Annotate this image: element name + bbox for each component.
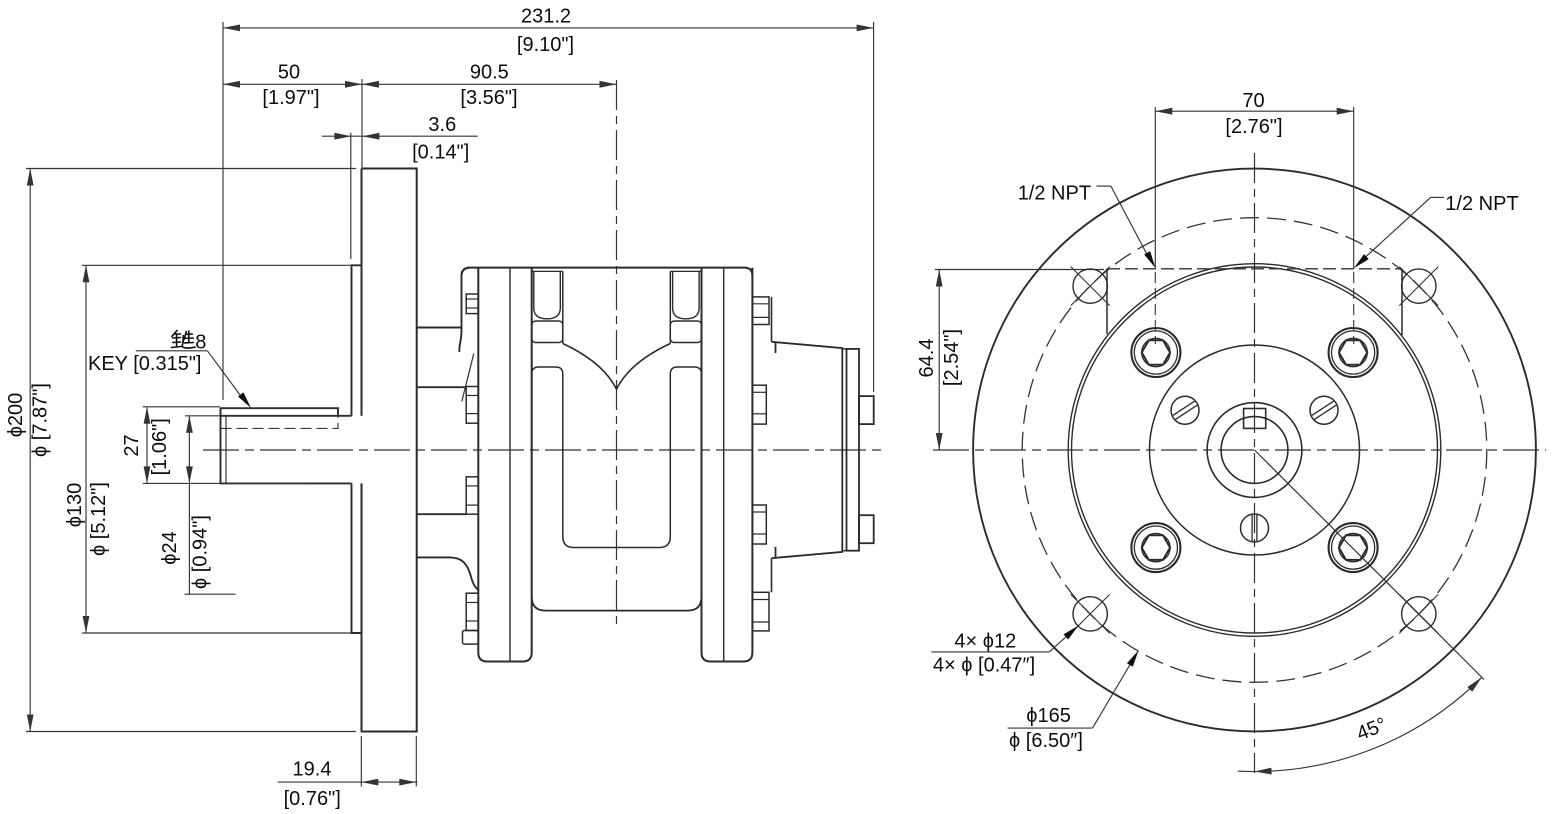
dim 231.2	[223, 27, 874, 29]
slotted screw left	[1171, 396, 1199, 424]
rear disk	[847, 349, 860, 551]
front view horizontal centerline	[933, 449, 1546, 451]
svg-text:ϕ130: ϕ130	[64, 483, 86, 528]
dim 27	[146, 407, 148, 484]
body square corner left	[1106, 269, 1108, 334]
mount hole phi12 bottom-right	[1402, 597, 1436, 631]
45 deg diagonal line	[1255, 450, 1485, 680]
tie-bolt band left	[532, 321, 563, 343]
flange outer circle phi200	[973, 169, 1536, 732]
front plate inner line	[509, 268, 511, 662]
neck upper boss line	[417, 386, 467, 388]
tie-bolt lower band left	[532, 367, 563, 597]
svg-text:3.6: 3.6	[428, 114, 456, 136]
ext lines dim27	[143, 406, 220, 408]
gear chamber bottom	[563, 537, 671, 548]
casting slant line	[462, 354, 474, 402]
keyway square	[1244, 409, 1266, 429]
svg-text:ϕ200: ϕ200	[5, 393, 27, 438]
svg-text:[2.54"]: [2.54"]	[941, 329, 963, 386]
shaft boss circle	[1207, 403, 1302, 498]
body top edge steps	[532, 270, 563, 272]
svg-text:4× ϕ [0.47″]: 4× ϕ [0.47″]	[933, 655, 1035, 677]
rear boss edge	[771, 297, 773, 342]
body square corner right	[1401, 269, 1403, 336]
svg-text:ϕ [0.94"]: ϕ [0.94"]	[190, 515, 212, 589]
body square top face (hidden)	[1107, 268, 1402, 270]
svg-text:1/2 NPT: 1/2 NPT	[1445, 193, 1518, 215]
slotted screw right	[1310, 396, 1338, 424]
svg-text:70: 70	[1242, 90, 1264, 112]
svg-text:[0.14"]: [0.14"]	[412, 142, 469, 164]
dim phi200	[29, 169, 31, 732]
svg-text:ϕ24: ϕ24	[159, 531, 181, 564]
shaft outline	[221, 408, 352, 483]
svg-text:ϕ165: ϕ165	[1026, 705, 1071, 727]
bolt head B1	[752, 297, 769, 325]
bolt head A4	[466, 593, 478, 630]
svg-text:19.4: 19.4	[293, 758, 332, 780]
bolt head B4	[752, 592, 769, 631]
bolt head A3	[466, 477, 478, 514]
dim 50	[223, 83, 362, 85]
svg-text:90.5: 90.5	[470, 62, 509, 84]
bolt head A2	[466, 387, 478, 424]
svg-text:50: 50	[278, 62, 300, 84]
bearing flange circle	[1150, 345, 1360, 555]
tie-bolt band right	[670, 321, 701, 343]
dim phi24	[188, 416, 190, 484]
front view vertical centerline	[1254, 153, 1256, 773]
svg-text:[1.97"]: [1.97"]	[262, 87, 319, 109]
neck top line	[417, 327, 462, 329]
svg-text:1/2 NPT: 1/2 NPT	[1018, 183, 1091, 205]
bolt circle phi165 (dashed)	[1022, 218, 1487, 683]
svg-text:27: 27	[121, 434, 143, 456]
port centerline right	[1353, 272, 1355, 344]
svg-text:[3.56"]: [3.56"]	[460, 87, 517, 109]
bolt head B3	[752, 505, 766, 544]
bottom bridge	[532, 597, 702, 611]
front plate	[478, 268, 531, 662]
center section tie-bolt column left walls	[562, 271, 564, 343]
flange pilot boss	[352, 265, 362, 633]
shaft key (top)	[221, 408, 339, 416]
label KEY 8 (Chinese)	[172, 331, 196, 349]
rear taper cone	[772, 342, 843, 558]
body top edge	[462, 268, 753, 276]
mount hole phi12 top-right	[1402, 269, 1436, 303]
socket screw top-right	[1329, 328, 1378, 377]
svg-text:64.4: 64.4	[916, 339, 938, 378]
tie-bolt slot left	[534, 271, 561, 318]
slotted screw bottom	[1241, 514, 1269, 542]
ext line shaft end	[222, 22, 224, 400]
socket screw bottom-right	[1329, 523, 1378, 572]
svg-text:[9.10"]: [9.10"]	[517, 34, 574, 56]
ext line shaft top	[185, 415, 220, 417]
rear plate inner line	[723, 268, 725, 662]
shaft circle phi24	[1221, 417, 1288, 484]
svg-text:8: 8	[195, 331, 206, 353]
svg-text:[2.76"]: [2.76"]	[1225, 116, 1282, 138]
dim phi130	[85, 265, 87, 633]
socket screw top-left	[1131, 328, 1180, 377]
keyway hidden line	[221, 416, 339, 428]
bolt head B2	[752, 385, 766, 424]
rear tab top	[859, 396, 874, 424]
ext lines 70	[1154, 107, 1156, 269]
socket screw bottom-left	[1131, 523, 1180, 572]
gear bore V-curve	[563, 344, 671, 390]
64.4 top extension line	[935, 269, 1104, 271]
shaft chamfer line	[225, 416, 227, 484]
svg-text:ϕ [7.87"]: ϕ [7.87"]	[30, 383, 52, 457]
neck bottom line	[417, 557, 479, 589]
bolt head A1	[466, 294, 478, 314]
dim 70	[1155, 110, 1353, 112]
rear tab bottom	[859, 515, 874, 543]
ext line rear end	[873, 22, 875, 392]
port centerline left	[1154, 272, 1156, 344]
neck lower boss line	[417, 513, 467, 515]
ext lines phi130	[82, 264, 352, 266]
mounting flange disk	[362, 169, 417, 732]
rear plate	[702, 268, 753, 662]
svg-text:[1.06"]: [1.06"]	[149, 418, 171, 475]
svg-text:231.2: 231.2	[521, 6, 571, 28]
side view: gear axis centerline	[616, 80, 618, 630]
svg-text:KEY [0.315"]: KEY [0.315"]	[88, 353, 201, 375]
svg-text:ϕ [5.12"]: ϕ [5.12"]	[88, 482, 110, 556]
mount hole phi12 bottom-left	[1073, 597, 1107, 631]
side view: horizontal centerline	[203, 449, 881, 451]
ext lines 19.4	[360, 736, 362, 787]
tie-bolt slot right	[673, 271, 700, 318]
body silhouette circle	[1068, 264, 1441, 637]
ext line flange face top	[361, 79, 363, 169]
tie-bolt lower band right	[670, 367, 701, 597]
mount hole phi12 top-left	[1073, 269, 1107, 303]
pilot circle phi130	[1072, 267, 1438, 633]
svg-text:ϕ [6.50″]: ϕ [6.50″]	[1009, 730, 1083, 752]
dim 90.5	[362, 83, 617, 85]
dim 64.4	[938, 270, 940, 451]
ext lines phi200	[26, 168, 356, 170]
dim 19.4	[278, 781, 418, 783]
dim 45 deg arc	[1238, 677, 1482, 771]
svg-text:[0.76"]: [0.76"]	[284, 788, 341, 810]
svg-text:4× ϕ12: 4× ϕ12	[954, 631, 1016, 653]
dim 3.6	[322, 135, 478, 137]
front plate top-left boss outline	[459, 268, 470, 352]
ext line boss face	[350, 133, 352, 259]
